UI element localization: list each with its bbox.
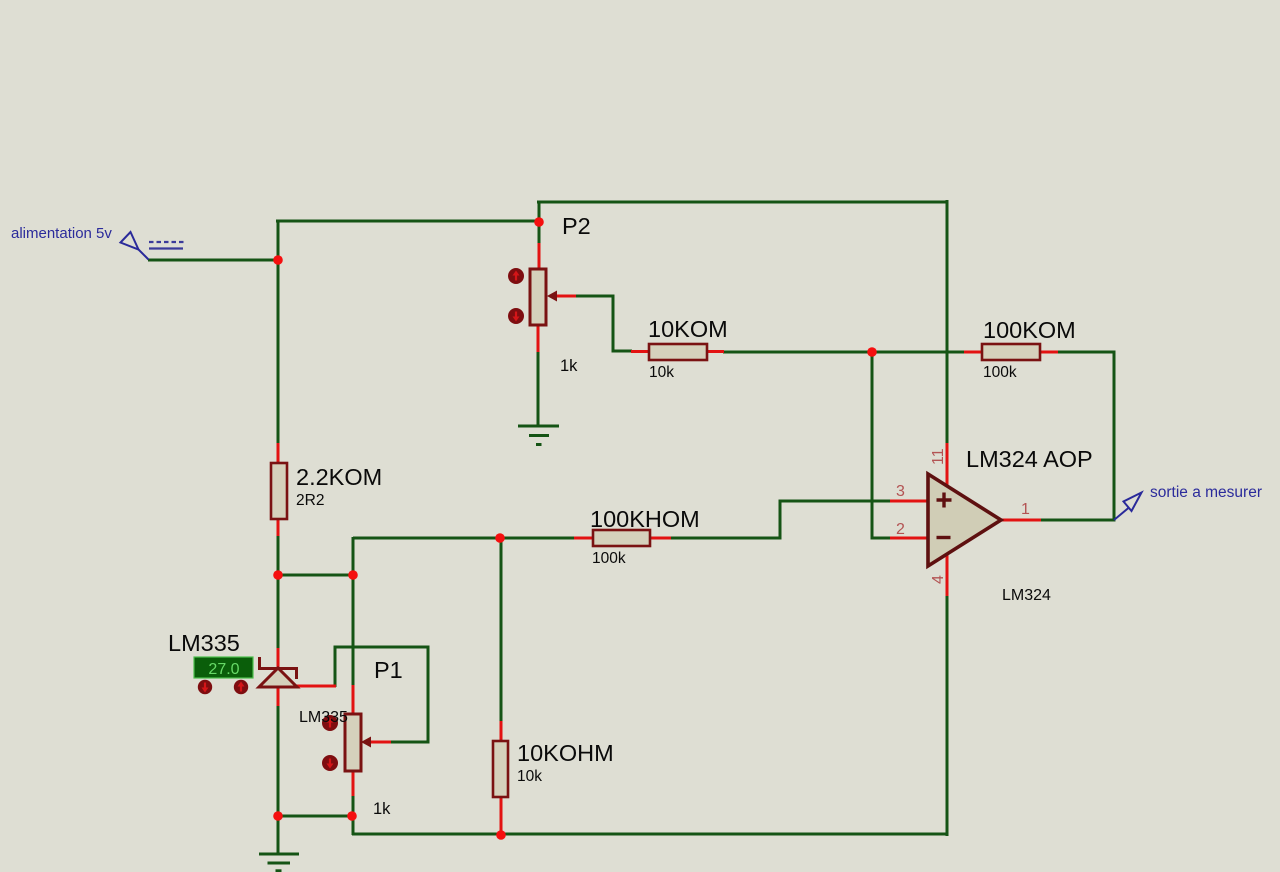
terminal alimentation arrow bbox=[121, 232, 149, 260]
svg-text:10KOHM: 10KOHM bbox=[517, 740, 614, 766]
wire: bottom tie y=816 bbox=[278, 815, 353, 818]
wire: top horizontal y=202 bbox=[537, 201, 947, 204]
svg-text:2.2KOM: 2.2KOM bbox=[296, 464, 382, 490]
pin: P2 bottom (red) bbox=[537, 325, 540, 352]
svg-text:11: 11 bbox=[930, 448, 947, 465]
resistor R 2.2KOM (vertical) bbox=[271, 463, 287, 519]
pin: P2 top (red) bbox=[538, 243, 541, 269]
pin: 100KOM right (red) bbox=[1039, 351, 1058, 354]
resistor 10KOM bbox=[649, 344, 707, 360]
junction node C (278,575) bbox=[273, 570, 283, 580]
pin: 10KOHM bottom (red) bbox=[500, 796, 503, 835]
ground (LM335) bbox=[259, 854, 299, 871]
svg-text:10k: 10k bbox=[517, 768, 542, 785]
junction (278,816) bbox=[273, 811, 283, 821]
pin: 100KHOM right (red) bbox=[649, 537, 671, 540]
pin: 10KOM left (red) bbox=[631, 350, 650, 353]
op-amp U1 LM324 triangle bbox=[928, 474, 1001, 566]
wire: node B down to op-amp pin 2 bbox=[872, 351, 891, 538]
svg-text:3: 3 bbox=[896, 483, 905, 500]
pin: 100KOM left (red) bbox=[964, 351, 983, 354]
terminal sortie arrow bbox=[1114, 493, 1142, 521]
svg-text:1k: 1k bbox=[373, 800, 391, 818]
pin 3 wire op-amp (red) bbox=[890, 500, 928, 503]
P2 button down bbox=[508, 308, 524, 324]
svg-text:LM324 AOP: LM324 AOP bbox=[966, 446, 1093, 472]
junction node A (278,260) bbox=[273, 255, 283, 265]
LM335 button up bbox=[234, 680, 248, 694]
wire: 10KOM to 100KOM (node B) bbox=[723, 351, 965, 354]
svg-text:100k: 100k bbox=[592, 550, 626, 567]
wire: P2 bottom to ground bbox=[537, 351, 540, 427]
LM335 button down bbox=[198, 680, 212, 694]
wire: 2.2KOM bottom to LM335 top bbox=[277, 535, 280, 649]
LM335 zener symbol bbox=[259, 657, 297, 687]
wire: 100KOM right to feedback corner bbox=[1040, 352, 1114, 520]
op-amp minus symbol bbox=[937, 536, 951, 539]
wire: LM335 bottom to ground bbox=[277, 704, 280, 855]
potentiometer P1 body bbox=[345, 714, 361, 771]
pin 4 wire op-amp (red) bbox=[946, 553, 949, 596]
pin: 10KOHM top (red) bbox=[500, 721, 503, 742]
svg-text:sortie a mesurer: sortie a mesurer bbox=[1150, 484, 1262, 501]
svg-text:LM335: LM335 bbox=[168, 630, 240, 656]
svg-text:1k: 1k bbox=[560, 357, 578, 375]
svg-text:10KOM: 10KOM bbox=[648, 316, 728, 342]
svg-text:10k: 10k bbox=[649, 364, 674, 381]
svg-text:alimentation 5v: alimentation 5v bbox=[11, 225, 112, 242]
svg-text:100KOM: 100KOM bbox=[983, 317, 1076, 343]
junction (501,835) bbox=[496, 830, 506, 840]
wiper arrowhead P2 bbox=[547, 291, 557, 302]
wire: horizontal y=221 to P2 top node bbox=[276, 220, 539, 223]
pin: 10KOM right (red) bbox=[706, 350, 724, 353]
svg-text:4: 4 bbox=[930, 575, 947, 584]
LM335 display 27.0 bbox=[194, 657, 253, 678]
svg-text:100k: 100k bbox=[983, 364, 1017, 381]
pin 2 wire op-amp (red) bbox=[890, 537, 928, 540]
svg-text:100KHOM: 100KHOM bbox=[590, 506, 700, 532]
junction node E (500,538) bbox=[495, 533, 505, 543]
wire: node E down to 10KOHM bbox=[500, 538, 503, 722]
pin 11 wire op-amp (red) bbox=[946, 443, 949, 486]
wire: vertical x=353 down to P1 top bbox=[352, 537, 355, 686]
pin: LM335 right lead (red) bbox=[296, 685, 336, 688]
wire: LM335 anode loop to P1 wiper bbox=[335, 647, 428, 742]
pin: P1 bottom (red) bbox=[352, 771, 355, 796]
pin: P1 wiper (red) bbox=[369, 741, 391, 744]
pin: LM335 anode bottom (red) bbox=[277, 685, 280, 706]
resistor 100KHOM bbox=[593, 530, 650, 546]
junction node D (353,575) bbox=[348, 570, 358, 580]
svg-text:2: 2 bbox=[896, 521, 905, 538]
svg-text:P1: P1 bbox=[374, 657, 403, 683]
wire: 100KHOM right to op-amp pin 3 bbox=[670, 501, 891, 538]
wire: P2 wiper to 10KOM bbox=[575, 296, 632, 351]
wire: horizontal y=538 from x=353 to 100KHOM bbox=[353, 537, 575, 540]
op-amp plus symbol bbox=[937, 493, 952, 508]
P1 button up bbox=[322, 715, 338, 731]
P2 button up bbox=[508, 268, 524, 284]
wire: vertical x=947 down to op-amp pin 11 bbox=[946, 200, 949, 444]
junction node B (872,352) bbox=[867, 347, 877, 357]
potentiometer P2 body bbox=[530, 269, 546, 325]
svg-text:LM335: LM335 bbox=[299, 709, 348, 726]
svg-text:27.0: 27.0 bbox=[208, 661, 239, 678]
pin: P2 wiper (red) bbox=[555, 295, 576, 298]
wire: vertical x=539 above P2 bbox=[538, 201, 541, 244]
wire: op-amp pin 4 down to bottom rail bbox=[946, 596, 949, 836]
wire: bottom rail y=834 bbox=[352, 833, 948, 836]
wire: P1 bottom to bottom rail bbox=[352, 795, 355, 835]
wire: vertical left rail x=278 bbox=[277, 220, 280, 444]
junction node P2 top (539,222) bbox=[534, 217, 544, 227]
terminal label dashes bbox=[149, 242, 184, 249]
pin: 2.2KOM top (red) bbox=[277, 443, 280, 464]
ground (P2) bbox=[518, 426, 559, 445]
wire: node C to node D horizontal y=575 bbox=[278, 574, 353, 577]
wiper arrowhead P1 bbox=[361, 737, 371, 748]
P1 button down bbox=[322, 755, 338, 771]
pin: P1 top (red) bbox=[352, 685, 355, 715]
svg-text:2R2: 2R2 bbox=[296, 492, 324, 509]
pin: 100KHOM left (red) bbox=[574, 537, 594, 540]
resistor 100KOM bbox=[982, 344, 1040, 360]
pin: LM335 cathode top (red) bbox=[277, 648, 280, 670]
svg-text:LM324: LM324 bbox=[1002, 587, 1051, 604]
pin 1 wire op-amp output (red) bbox=[1001, 519, 1041, 522]
svg-text:P2: P2 bbox=[562, 213, 591, 239]
resistor 10KOHM (vertical) bbox=[493, 741, 508, 797]
wire: terminal to node A bbox=[148, 259, 278, 262]
junction (352,816) bbox=[347, 811, 357, 821]
svg-text:1: 1 bbox=[1021, 501, 1030, 518]
pin: 2.2KOM bottom (red) bbox=[277, 518, 280, 536]
